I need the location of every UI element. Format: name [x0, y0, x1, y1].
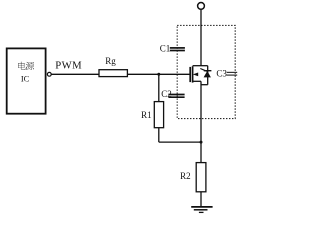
- svg-text:Rg: Rg: [105, 56, 116, 66]
- svg-text:R1: R1: [141, 110, 152, 120]
- svg-text:IC: IC: [21, 74, 30, 84]
- svg-text:PWM: PWM: [55, 60, 82, 72]
- svg-text:C1: C1: [160, 44, 171, 54]
- svg-text:R2: R2: [180, 171, 191, 181]
- svg-text:C3: C3: [216, 69, 227, 79]
